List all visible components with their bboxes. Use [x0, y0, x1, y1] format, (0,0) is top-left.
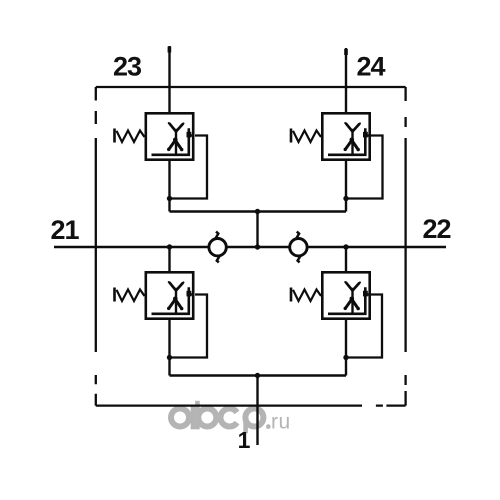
pilot loop bottom-left [170, 295, 208, 358]
svg-text:ru: ru [271, 411, 291, 434]
right edge [404, 87, 406, 406]
pilot loop bottom-right [346, 295, 382, 358]
pilot loop top-left [170, 136, 208, 199]
svg-text:23: 23 [113, 52, 142, 82]
port 23 line [168, 46, 170, 112]
port 1 line [256, 376, 258, 446]
relief valve bottom-left [115, 272, 195, 318]
check valve / orifice circle right [290, 232, 307, 263]
lower manifold [170, 247, 347, 376]
top edge [96, 86, 406, 88]
junction dots [167, 196, 349, 378]
port 24 line [345, 48, 347, 112]
bottom edge [96, 404, 406, 406]
svg-text:22: 22 [422, 214, 450, 244]
relief valve top-right [291, 113, 371, 159]
port labels [50, 52, 450, 246]
svg-text:24: 24 [356, 52, 385, 82]
pilot loop top-right [346, 136, 383, 199]
relief valve bottom-right [291, 272, 371, 318]
svg-text:1: 1 [238, 427, 251, 453]
watermark abcp.ru logo [171, 408, 263, 426]
watermark .ru text [266, 424, 271, 429]
upper manifold [170, 161, 347, 247]
relief valve top-left [115, 113, 195, 159]
main line 21-22 segments [54, 246, 446, 249]
check valve / orifice circle left [209, 232, 226, 263]
svg-text:21: 21 [50, 215, 79, 245]
dashed enclosure border [96, 87, 406, 406]
left edge [95, 87, 97, 406]
